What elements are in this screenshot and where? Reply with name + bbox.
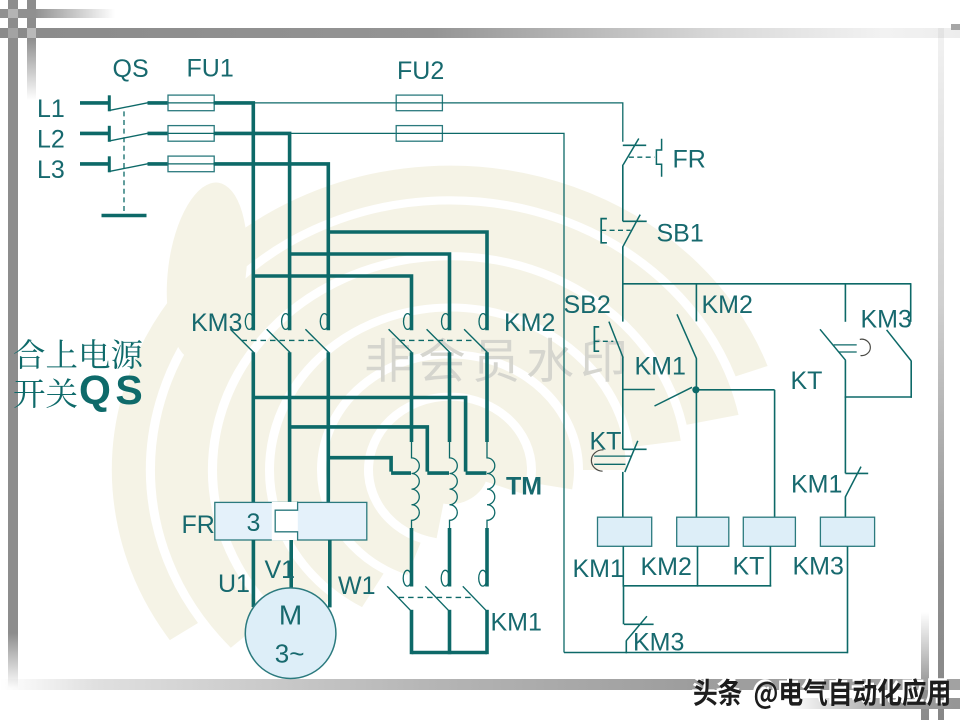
start button SB2 actuator bracket xyxy=(594,327,599,351)
start button SB2 actuator link (dashed) xyxy=(594,340,613,342)
template bar: right vertical gray xyxy=(938,28,944,720)
autotransformer TM winding 3 xyxy=(487,442,495,530)
svg-text:V1: V1 xyxy=(265,556,296,584)
stop button SB1 blade xyxy=(623,215,641,248)
wire rail down to KM3 self-hold contact xyxy=(910,284,912,322)
contactor KM2 main contact 3 blade xyxy=(464,329,487,352)
contact KM1 self-holding wire xyxy=(623,389,655,391)
stop button SB1 crossbar xyxy=(623,220,647,222)
contact KM3 self-holding blade xyxy=(887,330,912,361)
contactor KM2 main contact 2 blade xyxy=(427,329,450,352)
KM2 main contacts linkage (dashed) xyxy=(400,339,475,341)
template bar: top-right end cap xyxy=(951,24,960,30)
contactor KM1 main contact 3 blade xyxy=(463,586,486,610)
svg-text:KM1: KM1 xyxy=(791,471,842,499)
svg-text:TM: TM xyxy=(506,473,542,501)
wire star point bus of KM1 xyxy=(412,651,488,655)
svg-text:KM3: KM3 xyxy=(191,309,242,337)
switch QS pole 3 blade xyxy=(110,164,148,172)
contactor KM2 main contact 1 fixed hook xyxy=(404,314,412,330)
template bar: main horizontal gray xyxy=(0,28,960,38)
contactor KM2 main contact 3 lower wire to TM coil xyxy=(485,352,489,442)
wire FU2 pole1 to control rail (node down at x=623) xyxy=(442,103,622,142)
template bar: bottom horizontal gray xyxy=(0,679,960,690)
svg-text:L2: L2 xyxy=(37,126,65,154)
wire FU2 pole2 return line down to bottom bus xyxy=(442,133,564,652)
autotransformer TM winding 2 xyxy=(450,442,458,530)
contact KM1 normally-closed blade xyxy=(846,467,862,497)
stop button SB1 actuator bracket xyxy=(601,219,607,243)
template bar: crossing highlight squares xyxy=(8,9,18,18)
wire TM winding 3 bottom to KM1 contact xyxy=(485,528,489,587)
fuse FU2 pole 2 xyxy=(396,126,442,142)
contactor KM2 main contact 1 blade xyxy=(389,329,412,352)
wire rail down to KM2 contact xyxy=(695,284,697,322)
svg-text:KM2: KM2 xyxy=(702,291,753,319)
svg-text:QS: QS xyxy=(79,367,147,413)
contactor KM1 main contact 1 blade xyxy=(387,586,410,610)
time relay KT contact blade xyxy=(625,441,638,472)
wire KM1 coil bottom xyxy=(622,546,624,586)
contactor KM2 main contact 2 fixed hook xyxy=(442,314,450,330)
wire SB2 down through KM1 node to KT contact xyxy=(622,357,624,449)
svg-text:KT: KT xyxy=(791,367,823,395)
node junction dot xyxy=(692,386,699,393)
wire KM3 contact down xyxy=(910,361,912,398)
switch QS pole 1 hinge xyxy=(108,95,111,111)
contactor KM3 main contact 3 blade xyxy=(305,329,328,352)
wire coil sub-bus xyxy=(623,585,772,587)
wire TM winding 1 bottom to KM1 contact xyxy=(410,528,414,587)
autotransformer TM winding 1 xyxy=(412,442,420,530)
thermal relay FR contact blade xyxy=(623,139,639,165)
svg-text:SB2: SB2 xyxy=(564,291,611,319)
switch QS pole 2 hinge xyxy=(108,126,111,142)
wire KM1 NC to KM3 coil xyxy=(844,496,846,517)
wire L2 supply stub xyxy=(80,132,110,136)
switch QS pole 3 hinge xyxy=(108,156,111,172)
start button SB2 blade xyxy=(609,322,623,358)
wire L3 supply stub xyxy=(80,162,110,166)
watermark text 非会员水印 xyxy=(367,338,410,382)
decorative watermark swirl xyxy=(129,181,752,632)
thermal relay FR contact lower wire to SB1 xyxy=(622,165,624,222)
time relay KT delay arc xyxy=(591,450,603,471)
fuse FU2 pole 1 xyxy=(396,95,442,111)
contactor KM1 main contact 2 lower wire xyxy=(448,610,452,654)
svg-text:KM2: KM2 xyxy=(504,309,555,337)
wire L3 to FU1 xyxy=(148,162,170,166)
contact KM3 NC crossbar xyxy=(624,623,654,625)
wire L1 to FU1 xyxy=(148,101,170,105)
svg-text:KM3: KM3 xyxy=(861,306,912,334)
wire L2 to FU1 xyxy=(148,132,170,136)
svg-text:FU1: FU1 xyxy=(187,55,234,83)
svg-text:3~: 3~ xyxy=(275,639,305,669)
svg-text:W1: W1 xyxy=(338,572,376,600)
contactor KM1 main contact 2 blade xyxy=(425,586,448,610)
fuse FU1 pole 3 xyxy=(168,156,214,172)
wire KM2 coil bottom xyxy=(697,546,699,586)
wire junction to KT coil branch xyxy=(696,389,775,391)
svg-text:KT: KT xyxy=(590,428,622,456)
switch QS linkage (dashed) xyxy=(123,111,125,215)
time relay KT delay arc (right) xyxy=(860,339,871,355)
template bar: second vertical gray fading tail xyxy=(27,0,36,100)
svg-text:KT: KT xyxy=(733,553,765,581)
slide caption line 1: 合上电源 xyxy=(14,339,142,369)
wire KT right contact down xyxy=(844,360,846,398)
wire U1 from FR to motor xyxy=(252,540,256,607)
wire L1 thin feeder to FU2 xyxy=(253,102,396,104)
wire branch down to KM1 NC contact xyxy=(844,397,846,473)
wire KM3 NC to bottom bus xyxy=(625,641,627,654)
coil KT xyxy=(743,517,795,546)
switch QS pole 1 blade xyxy=(110,103,148,111)
switch QS pole 2 blade xyxy=(110,133,148,141)
contact KM1 self-holding blade xyxy=(655,387,693,406)
wire tap V1-line to TM winding 2 xyxy=(290,427,449,473)
wire TM winding 2 bottom to KM1 contact xyxy=(448,528,452,587)
svg-text:3: 3 xyxy=(247,509,261,537)
coil KM3 xyxy=(820,517,874,546)
svg-text:L1: L1 xyxy=(37,95,65,123)
contactor KM3 main contact 1 blade xyxy=(230,329,253,352)
wire rail down to SB2 xyxy=(622,284,624,322)
contactor KM1 main contact 3 lower wire xyxy=(485,610,489,654)
svg-text:KM1: KM1 xyxy=(573,555,624,583)
contactor KM3 main contact 3 fixed hook xyxy=(320,314,328,330)
svg-text:SB1: SB1 xyxy=(657,220,704,248)
contactor KM3 main contact 1 fixed hook xyxy=(245,314,253,330)
wire L1 from FU1, corner down to KM3 contact 1 xyxy=(214,103,254,330)
time relay KT delay lines xyxy=(594,455,631,457)
thermal relay FR heater notch xyxy=(272,502,298,541)
svg-text:FU2: FU2 xyxy=(397,57,444,85)
template bar: bottom-right inner vertical xyxy=(921,612,929,720)
time relay KT delay lines (right) xyxy=(834,344,857,346)
coil KM2 xyxy=(677,517,729,546)
control bottom bus xyxy=(564,652,848,654)
contact KM3 normally-closed (bottom): upper wire xyxy=(623,586,625,625)
contactor KM3 main contact 3 lower wire to FR heater xyxy=(326,352,330,503)
contactor KM2 main contact 2 lower wire to TM coil xyxy=(448,352,452,442)
wire KM3 coil bottom to bus xyxy=(847,546,849,653)
fuse FU1 pole 1 xyxy=(168,95,214,111)
wire L1 supply stub xyxy=(80,101,110,105)
wire L2 thin feeder to FU2 xyxy=(290,132,397,134)
thermal relay FR contact: upper wire already drawn; crossbar xyxy=(623,144,646,146)
svg-text:M: M xyxy=(279,600,302,631)
wire tie L3 to KM2 contact 3 xyxy=(328,232,487,330)
wire V1 from FR to motor xyxy=(289,540,293,589)
control rail top xyxy=(623,283,912,285)
contactor KM1 main contact 3 fixed hook xyxy=(479,570,487,586)
svg-text:KM1: KM1 xyxy=(491,609,542,637)
wire joining KT/KM3 parallel branch xyxy=(845,396,912,398)
fuse FU1 pole 2 xyxy=(168,126,214,142)
template bar: upper horizontal short gray xyxy=(0,9,115,18)
contactor KM3 main contact 2 lower wire to FR heater xyxy=(288,352,292,503)
svg-text:KM2: KM2 xyxy=(641,553,692,581)
svg-text:QS: QS xyxy=(113,55,149,83)
wire KT coil bottom xyxy=(769,546,771,586)
time relay KT delayed contact (left): crossbar xyxy=(623,448,647,450)
svg-text:FR: FR xyxy=(673,146,706,174)
stop button SB1 actuator link (dashed) xyxy=(601,229,630,231)
wire KM2 contact to KM2 coil xyxy=(695,359,697,518)
wire tie L1 to KM2 contact 1 xyxy=(253,276,411,330)
svg-text:U1: U1 xyxy=(218,570,250,598)
thermal relay FR heater box xyxy=(215,502,367,540)
KM3 main contacts linkage (dashed) xyxy=(242,339,317,341)
wire rail down to right branch (KT delayed) xyxy=(844,284,846,322)
wire tap U1-line to TM winding 3 xyxy=(253,398,486,474)
thermal relay FR element symbol xyxy=(656,139,661,177)
svg-text:KM3: KM3 xyxy=(633,629,684,657)
coil KM1 xyxy=(598,517,652,546)
contactor KM3 main contact 2 blade xyxy=(267,329,290,352)
svg-text:FR: FR xyxy=(182,511,215,539)
slide caption line 2: 开关 xyxy=(14,378,77,408)
template bar: bottom second horizontal gray xyxy=(790,698,960,709)
KM1 main contacts linkage (dashed) xyxy=(399,596,473,598)
contactor KM3 main contact 1 lower wire to FR heater xyxy=(252,352,256,503)
wire L2 from FU1, corner down to KM3 contact 2 xyxy=(214,133,290,330)
contact KM3 NC blade xyxy=(626,616,647,641)
wire W1 from FR to motor xyxy=(328,540,332,607)
wire L3 from FU1, corner down to KM3 contact 3 xyxy=(214,164,329,330)
svg-text:L3: L3 xyxy=(37,156,65,184)
wire tie L2 to KM2 contact 2 xyxy=(290,254,450,330)
contactor KM1 main contact 2 fixed hook xyxy=(441,570,449,586)
svg-text:KM1: KM1 xyxy=(635,353,686,381)
wire SB1 to rail xyxy=(622,247,624,285)
thermal relay FR actuator link (dashed) xyxy=(629,156,655,158)
switch QS operator bar xyxy=(102,214,147,217)
svg-text:KM3: KM3 xyxy=(793,553,844,581)
wire tap W1-line to TM winding 1 xyxy=(328,458,411,473)
contactor KM2 main contact 1 lower wire to TM coil xyxy=(410,352,414,442)
wire KT contact to KM1 coil xyxy=(622,472,624,517)
contactor KM3 main contact 2 fixed hook xyxy=(282,314,290,330)
contactor KM1 main contact 1 fixed hook xyxy=(403,570,411,586)
motor M circle xyxy=(245,588,336,679)
contact KM2 auxiliary blade xyxy=(677,314,697,358)
bottom-right byline 头条 @电气自动化应用 (embossed) xyxy=(692,676,949,709)
time relay KT delayed contact (right) blade xyxy=(820,329,846,360)
contactor KM1 main contact 1 lower wire xyxy=(410,610,414,654)
contactor KM2 main contact 3 fixed hook xyxy=(479,314,487,330)
template bar: left vertical gray xyxy=(8,0,18,688)
contact KM1 normally-closed crossbar xyxy=(845,472,868,474)
